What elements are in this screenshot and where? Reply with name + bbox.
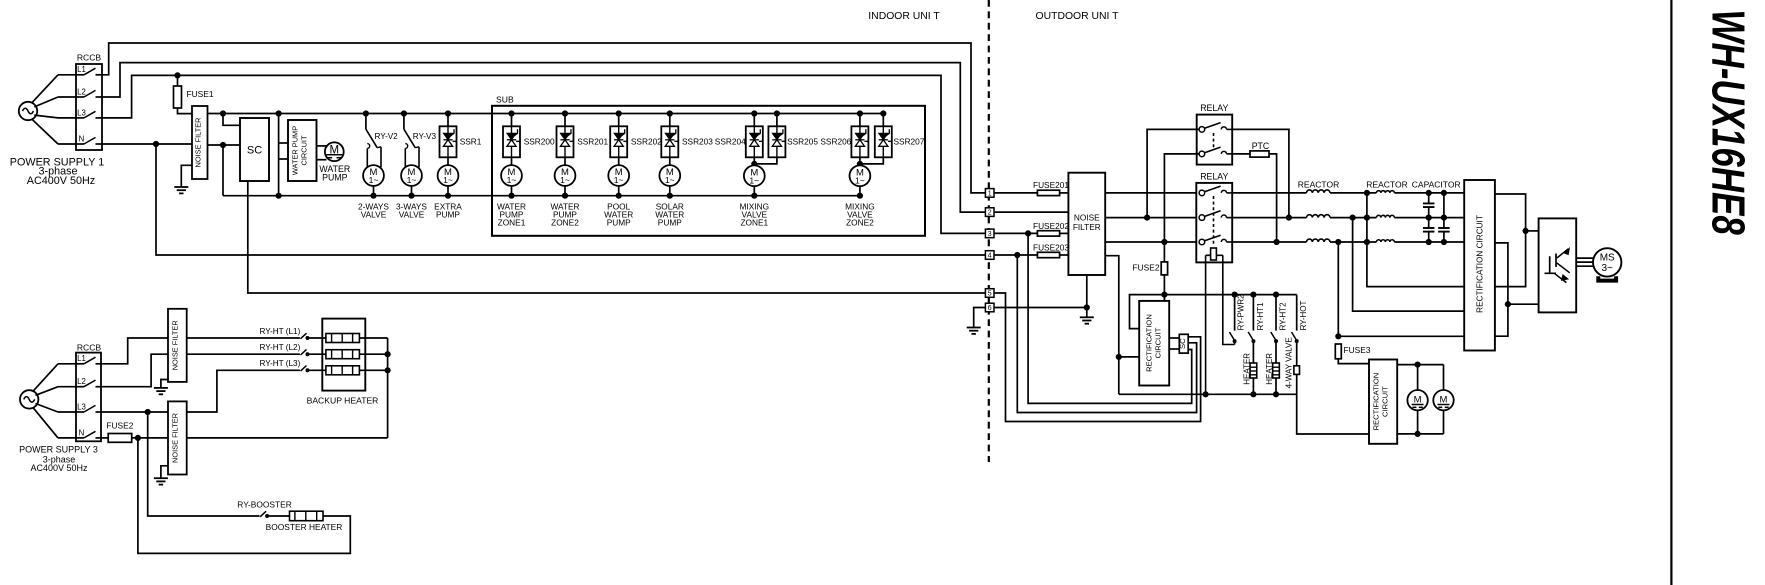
svg-text:FUSE3: FUSE3 xyxy=(1344,345,1371,355)
svg-text:SSR1: SSR1 xyxy=(460,136,482,146)
svg-text:RY-HT (L2): RY-HT (L2) xyxy=(260,343,301,352)
svg-text:POWER SUPPLY 3: POWER SUPPLY 3 xyxy=(19,444,98,454)
svg-text:NOISE: NOISE xyxy=(1074,213,1100,223)
svg-text:L3: L3 xyxy=(77,108,86,117)
svg-text:ZONE1: ZONE1 xyxy=(498,217,526,227)
svg-text:MS: MS xyxy=(1600,253,1615,264)
svg-text:VALVE: VALVE xyxy=(399,209,425,219)
svg-text:3~: 3~ xyxy=(1601,263,1613,274)
svg-text:HEATER: HEATER xyxy=(1265,353,1274,385)
svg-text:RY-HT1: RY-HT1 xyxy=(1256,302,1265,331)
svg-text:FILTER: FILTER xyxy=(1073,222,1101,232)
svg-text:L2: L2 xyxy=(77,377,86,386)
svg-text:PUMP: PUMP xyxy=(322,172,348,182)
svg-text:INDOOR UNI T: INDOOR UNI T xyxy=(868,11,940,22)
svg-text:RELAY: RELAY xyxy=(1200,172,1228,182)
svg-text:1~: 1~ xyxy=(855,175,865,185)
svg-text:PUMP: PUMP xyxy=(436,209,460,219)
svg-text:CAPACITOR: CAPACITOR xyxy=(1412,180,1461,190)
svg-text:SSR204: SSR204 xyxy=(715,136,746,146)
svg-text:REACTOR: REACTOR xyxy=(1298,180,1339,190)
svg-text:1~: 1~ xyxy=(443,175,453,185)
svg-text:3: 3 xyxy=(988,231,992,238)
svg-text:1~: 1~ xyxy=(560,175,570,185)
svg-text:SC: SC xyxy=(1178,338,1187,349)
svg-text:1~: 1~ xyxy=(665,175,675,185)
svg-text:FUSE2: FUSE2 xyxy=(106,421,133,431)
svg-text:SSR205: SSR205 xyxy=(787,136,818,146)
svg-text:BOOSTER HEATER: BOOSTER HEATER xyxy=(266,522,343,532)
svg-text:CIRCUIT: CIRCUIT xyxy=(1154,327,1163,358)
svg-text:RY-HOT: RY-HOT xyxy=(1299,301,1308,331)
svg-text:N: N xyxy=(79,134,85,143)
svg-text:FUSE2: FUSE2 xyxy=(1133,263,1160,273)
svg-text:SSR200: SSR200 xyxy=(524,136,555,146)
svg-text:NOISE FILTER: NOISE FILTER xyxy=(171,413,180,463)
svg-text:4: 4 xyxy=(988,253,992,260)
svg-text:RY-HT (L3): RY-HT (L3) xyxy=(260,359,301,368)
svg-text:FUSE203: FUSE203 xyxy=(1033,243,1069,253)
svg-text:L1: L1 xyxy=(77,65,86,74)
svg-text:CIRCUIT: CIRCUIT xyxy=(300,135,309,165)
svg-text:L1: L1 xyxy=(77,354,86,363)
svg-text:SSR206: SSR206 xyxy=(820,136,851,146)
svg-text:1~: 1~ xyxy=(749,175,759,185)
svg-text:NOISE FILTER: NOISE FILTER xyxy=(193,118,202,168)
svg-text:RY-V2: RY-V2 xyxy=(375,132,399,141)
svg-text:RY-HT (L1): RY-HT (L1) xyxy=(260,327,301,336)
svg-text:HEATER: HEATER xyxy=(1243,353,1252,385)
svg-text:AC400V 50Hz: AC400V 50Hz xyxy=(27,175,95,187)
svg-text:FUSE1: FUSE1 xyxy=(187,89,214,99)
svg-text:1~: 1~ xyxy=(369,175,379,185)
svg-text:5: 5 xyxy=(988,291,992,298)
svg-text:ZONE2: ZONE2 xyxy=(551,217,579,227)
svg-text:SSR207: SSR207 xyxy=(894,136,925,146)
svg-text:1: 1 xyxy=(988,190,992,197)
svg-text:2: 2 xyxy=(988,210,992,217)
svg-text:ZONE1: ZONE1 xyxy=(740,217,768,227)
svg-text:AC400V 50Hz: AC400V 50Hz xyxy=(30,463,88,473)
svg-text:6: 6 xyxy=(988,305,992,312)
svg-text:RCCB: RCCB xyxy=(77,52,102,62)
svg-text:4-WAY VALVE: 4-WAY VALVE xyxy=(1285,337,1294,388)
svg-text:RCCB: RCCB xyxy=(77,343,102,353)
svg-text:1~: 1~ xyxy=(614,175,624,185)
svg-text:FUSE201: FUSE201 xyxy=(1033,180,1069,190)
svg-text:PUMP: PUMP xyxy=(607,217,631,227)
svg-text:RECTIFICATION CIRCUIT: RECTIFICATION CIRCUIT xyxy=(1476,215,1485,313)
svg-text:RY-V3: RY-V3 xyxy=(413,132,437,141)
svg-text:PUMP: PUMP xyxy=(658,217,682,227)
svg-text:RELAY: RELAY xyxy=(1200,103,1228,113)
svg-text:SC: SC xyxy=(247,144,262,156)
svg-text:SSR202: SSR202 xyxy=(631,136,662,146)
svg-text:WATER PUMP: WATER PUMP xyxy=(291,126,300,175)
svg-text:WH-UX16HE8: WH-UX16HE8 xyxy=(1702,10,1754,236)
svg-text:FUSE202: FUSE202 xyxy=(1033,221,1069,231)
svg-text:ZONE2: ZONE2 xyxy=(846,217,874,227)
svg-text:SUB: SUB xyxy=(496,95,514,105)
svg-text:RY-BOOSTER: RY-BOOSTER xyxy=(237,500,291,510)
svg-text:OUTDOOR UNI T: OUTDOOR UNI T xyxy=(1036,11,1120,22)
svg-text:REACTOR: REACTOR xyxy=(1366,180,1407,190)
svg-text:BACKUP HEATER: BACKUP HEATER xyxy=(307,395,379,405)
svg-text:1~: 1~ xyxy=(407,175,417,185)
svg-text:PTC: PTC xyxy=(1252,141,1270,151)
svg-text:NOISE FILTER: NOISE FILTER xyxy=(171,320,180,370)
svg-text:SSR203: SSR203 xyxy=(682,136,713,146)
svg-text:N: N xyxy=(79,428,85,437)
svg-text:CIRCUIT: CIRCUIT xyxy=(1381,386,1390,417)
svg-text:L3: L3 xyxy=(77,402,86,411)
svg-text:RECTIFICATION: RECTIFICATION xyxy=(1372,373,1381,431)
svg-text:RY-PWR2: RY-PWR2 xyxy=(1237,294,1246,331)
svg-text:VALVE: VALVE xyxy=(361,209,387,219)
svg-text:1~: 1~ xyxy=(507,175,517,185)
svg-text:SSR201: SSR201 xyxy=(577,136,608,146)
svg-text:RY-HT2: RY-HT2 xyxy=(1278,302,1287,331)
svg-text:L2: L2 xyxy=(77,87,86,96)
svg-text:RECTIFICATION: RECTIFICATION xyxy=(1145,314,1154,372)
